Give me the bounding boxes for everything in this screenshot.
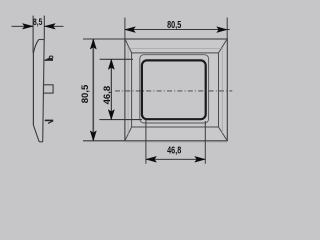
dim 8,5 left arrow	[22, 24, 33, 30]
svg-text:46,8: 46,8	[167, 144, 181, 156]
svg-text:80,5: 80,5	[80, 84, 91, 103]
middle clip square	[44, 85, 54, 93]
upper claw	[45, 58, 54, 61]
ext right	[204, 121, 206, 164]
side back face (slight draft)	[43, 39, 45, 141]
left arrow	[146, 156, 157, 162]
dim line	[146, 158, 205, 160]
dim line	[125, 29, 230, 31]
left arrow	[125, 27, 135, 33]
soft shadow under outer bottom edge	[126, 141, 228, 143]
thick window rounded rect	[142, 60, 206, 119]
bevel diagonal top-left	[125, 39, 132, 53]
down arrow	[90, 131, 96, 141]
right arrow	[195, 156, 206, 162]
ext top	[83, 38, 125, 40]
faint bevel mid line top	[130, 48, 221, 50]
outer square	[125, 39, 227, 141]
side top edge	[39, 39, 44, 41]
svg-text:8,5: 8,5	[33, 17, 43, 27]
window interior fill	[143, 62, 204, 118]
thin rounded rect	[140, 55, 209, 123]
ext bottom	[99, 119, 141, 121]
side bottom edge	[39, 141, 43, 143]
lower claw	[45, 120, 53, 122]
side profile fill	[33, 39, 44, 141]
dim 8,5 line left tail	[12, 25, 34, 27]
down arrow	[108, 110, 114, 120]
centerline dash-dot	[115, 90, 232, 92]
ext bottom	[83, 140, 125, 142]
ext right	[226, 18, 228, 40]
right arrow	[217, 27, 228, 33]
bevel diagonal top-right	[219, 39, 228, 53]
dim line	[92, 39, 94, 141]
bevel diagonal bottom-right	[219, 127, 228, 141]
side top chamfer	[33, 40, 38, 54]
dim 8,5 right arrow	[45, 24, 56, 30]
bevel inner square	[132, 53, 219, 127]
up arrow	[90, 39, 96, 49]
side bottom chamfer	[33, 125, 39, 142]
side left face	[32, 53, 34, 125]
ext left	[145, 120, 147, 164]
svg-text:80,5: 80,5	[167, 19, 181, 31]
ext left	[124, 18, 126, 40]
bevel diagonal bottom-left	[125, 127, 132, 141]
dim 8,5 extension line right	[43, 16, 45, 40]
faint bevel mid line left	[127, 47, 129, 135]
dim 8,5 extension line left	[32, 16, 34, 54]
up arrow	[108, 59, 114, 69]
dim 8,5 right tail	[44, 25, 63, 27]
faint bevel mid line right	[221, 48, 223, 134]
svg-text:46,8: 46,8	[102, 86, 113, 105]
ext top	[100, 58, 133, 60]
dim line	[110, 59, 112, 119]
